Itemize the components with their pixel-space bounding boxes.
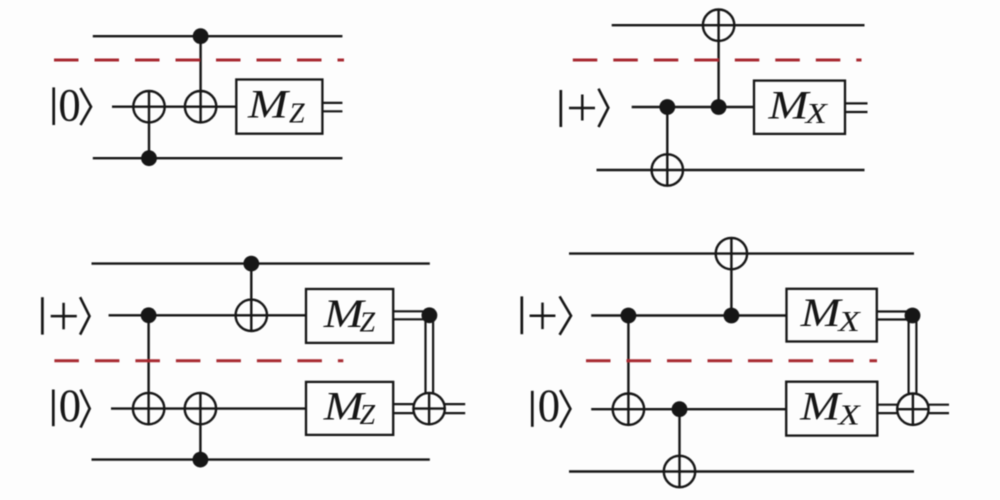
measurement box M_Z xyxy=(236,80,322,134)
wire vertical CNOT a1 control to a2 target xyxy=(627,316,629,426)
svg-text:X: X xyxy=(836,400,861,431)
control dot on q1 xyxy=(193,452,209,468)
measurement box M_X lower xyxy=(786,382,877,436)
wire vertical CNOT ancilla to q1 control xyxy=(148,91,150,158)
control dot 2 on a1 xyxy=(724,308,740,324)
svg-text:Z: Z xyxy=(360,400,376,431)
CNOT target on q0 xyxy=(703,10,734,41)
classical vertical double wire xyxy=(907,316,909,394)
control dot 1 on a1 xyxy=(621,308,637,324)
svg-text:Z: Z xyxy=(289,99,305,130)
classical double wire out xyxy=(845,102,868,104)
classical vertical double wire xyxy=(424,315,426,393)
CNOT target 2 on a2 xyxy=(185,393,216,424)
ket label |0> ancilla a2 xyxy=(532,379,570,431)
svg-text:M: M xyxy=(799,384,842,428)
CNOT target on a2 xyxy=(613,394,644,425)
classical double wire from upper box xyxy=(877,310,913,312)
control dot on a2 xyxy=(672,401,688,417)
wire q0 top xyxy=(569,252,914,254)
measurement box M_Z upper xyxy=(306,289,393,343)
measurement box M_X upper xyxy=(787,289,877,342)
wire a2 xyxy=(111,407,306,409)
control dot on a1 xyxy=(141,307,157,323)
svg-text:Z: Z xyxy=(360,308,376,339)
classical double wire right of target xyxy=(929,404,949,406)
svg-text:0: 0 xyxy=(59,379,81,431)
control dot on q0 xyxy=(243,256,259,272)
classical control dot xyxy=(422,307,438,323)
wire vertical CNOT q0 control to a1 target xyxy=(250,264,252,331)
svg-text:X: X xyxy=(836,306,861,337)
classical double wire right of target xyxy=(445,403,465,405)
classical double wire from lower box xyxy=(393,403,413,405)
dashed partition line (red) xyxy=(573,59,862,62)
dashed partition line (red) xyxy=(586,359,877,362)
dashed partition line (red) xyxy=(54,359,343,362)
CNOT target 2 on ancilla xyxy=(185,91,216,122)
wire vertical CNOT a1 control to q0 target xyxy=(730,238,732,316)
ket label |+> ancilla a1 xyxy=(42,297,89,334)
wire vertical CNOT q0 target to ancilla control xyxy=(717,10,719,108)
CNOT target on q1 xyxy=(652,154,683,185)
ket label |+> ancilla xyxy=(561,89,609,127)
ket label |+> ancilla a1 xyxy=(522,296,571,334)
ket label |0> ancilla a2 xyxy=(53,379,89,431)
svg-text:M: M xyxy=(767,83,810,127)
classically controlled X target xyxy=(897,394,928,425)
classical control dot xyxy=(905,308,921,324)
classical double wire out xyxy=(322,102,342,104)
control dot on q0 xyxy=(193,28,209,44)
wire q0 top xyxy=(612,24,865,26)
classical double wire from lower box xyxy=(877,404,897,406)
svg-text:0: 0 xyxy=(58,78,80,130)
wire vertical CNOT q0 to ancilla target xyxy=(199,36,201,122)
wire q1 bottom xyxy=(569,470,914,472)
wire q0 top xyxy=(93,35,343,37)
ket label |0> ancilla xyxy=(54,78,91,130)
classically controlled X target xyxy=(413,393,444,424)
control dot on q1 xyxy=(141,150,157,166)
wire vertical CNOT q1 control to a2 target xyxy=(199,393,201,460)
svg-text:X: X xyxy=(803,98,828,129)
wire q1 bottom xyxy=(597,169,865,171)
CNOT target on q1 xyxy=(664,456,695,487)
wire q0 top xyxy=(92,262,430,264)
svg-text:M: M xyxy=(247,82,290,126)
measurement box M_Z lower xyxy=(306,382,393,435)
wire q1 bottom xyxy=(93,157,343,159)
control dot 1 on ancilla xyxy=(659,99,675,115)
classical double wire from upper box xyxy=(393,310,429,312)
dashed partition line (red) xyxy=(54,59,344,62)
wire q1 bottom xyxy=(92,458,430,460)
measurement box M_X xyxy=(754,81,845,134)
wire vertical CNOT a1 control to a2 target xyxy=(147,315,149,424)
CNOT target 1 on a2 xyxy=(133,393,164,424)
control dot 2 on ancilla xyxy=(711,99,727,115)
CNOT target on a1 xyxy=(236,300,267,331)
wire a1 xyxy=(109,314,306,316)
svg-text:0: 0 xyxy=(538,379,560,431)
CNOT target 1 on ancilla xyxy=(133,91,164,122)
CNOT target on q0 xyxy=(716,238,747,269)
wire ancilla middle xyxy=(632,106,754,108)
wire ancilla middle xyxy=(112,105,236,107)
svg-text:M: M xyxy=(800,291,843,335)
wire a1 xyxy=(591,314,786,316)
wire vertical CNOT ancilla control to q1 target xyxy=(666,107,668,186)
wire a2 xyxy=(591,408,786,410)
wire vertical CNOT a2 control to q1 target xyxy=(678,409,680,487)
